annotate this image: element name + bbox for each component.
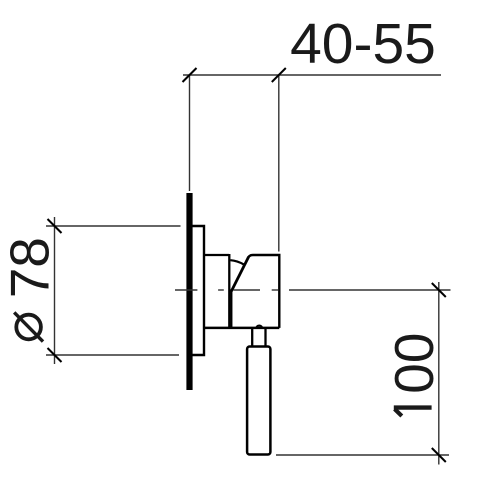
wall plate thick bar [186, 193, 192, 390]
svg-text:00: 00 [383, 333, 445, 394]
dim ø78 extension line bottom [46, 354, 179, 356]
handle body top and right [248, 255, 279, 328]
neck right edge [264, 329, 266, 346]
dim 100 line [438, 282, 440, 465]
dim 40-55 line [183, 74, 441, 76]
sleeve top edge [204, 254, 229, 256]
escutcheon rosette outline [193, 226, 205, 355]
centerline axis dash [234, 289, 261, 291]
centerline axis dot [218, 289, 224, 291]
handle skirt arc [231, 260, 244, 264]
tick [432, 448, 446, 462]
set screw bump [256, 326, 262, 327]
svg-text:78: 78 [0, 237, 61, 298]
tick [48, 348, 62, 362]
centerline axis dash [175, 289, 197, 291]
dim 100 extension line top [289, 289, 451, 291]
centerline axis dot [272, 289, 279, 291]
lever handle [247, 347, 270, 455]
dim ø78 line [54, 217, 56, 364]
label 100 digit one stem [394, 405, 432, 409]
dim 40-55 extension line right [278, 75, 280, 252]
body bottom edge [204, 327, 279, 330]
body left edge [230, 290, 232, 329]
sleeve right edge [228, 254, 230, 328]
tick [183, 68, 197, 82]
tick [432, 283, 446, 297]
dim ø78 extension line top [46, 225, 181, 227]
neck left edge [251, 329, 253, 346]
lever diagonal [231, 257, 248, 292]
dim 100 extension line bottom [276, 454, 449, 456]
tick [272, 68, 286, 82]
dim 40-55 extension line left [189, 75, 191, 191]
label ø78 diameter symbol [16, 315, 41, 340]
label 100 digit one flag [395, 409, 402, 416]
tick [48, 219, 62, 233]
svg-text:40-55: 40-55 [290, 12, 436, 76]
